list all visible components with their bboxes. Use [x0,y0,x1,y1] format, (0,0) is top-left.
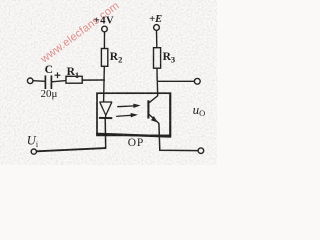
wire R2 to node A and LED anode [103,66,106,102]
phototransistor Q1 [148,96,159,124]
light arrow 1 [117,104,140,108]
wire C to R1 [52,81,66,82]
power +4V terminal [102,26,108,32]
resistor R1 [66,76,82,83]
input terminal u_i (bottom left) [31,149,36,154]
LED D1 (emitter diode) [99,102,112,118]
wire node to output top terminal [157,80,194,82]
capacitor C [45,72,60,89]
wire +E to R3 [156,30,158,47]
scan speckle overlay [0,0,1,1]
power +E terminal [154,25,160,31]
optocoupler box OP [96,93,171,137]
wire LED cathode down to u_i rail [104,118,107,148]
wire emitter down and right to output bottom terminal [159,123,198,150]
input terminal (top left) [27,78,33,84]
resistor R2 [101,49,107,67]
output terminal (top right) [194,78,200,84]
wire +4V to R2 [103,32,105,49]
wire collector up to node [156,81,158,96]
wire input terminal to C [33,80,45,83]
output terminal (bottom right) [198,148,204,154]
wire u_i bottom rail [37,148,106,151]
light arrow 2 [116,113,138,117]
resistor R3 [154,48,161,68]
wire R3 to collector node [156,68,158,81]
node A: R1/R2/LED-anode junction wire [82,79,105,81]
